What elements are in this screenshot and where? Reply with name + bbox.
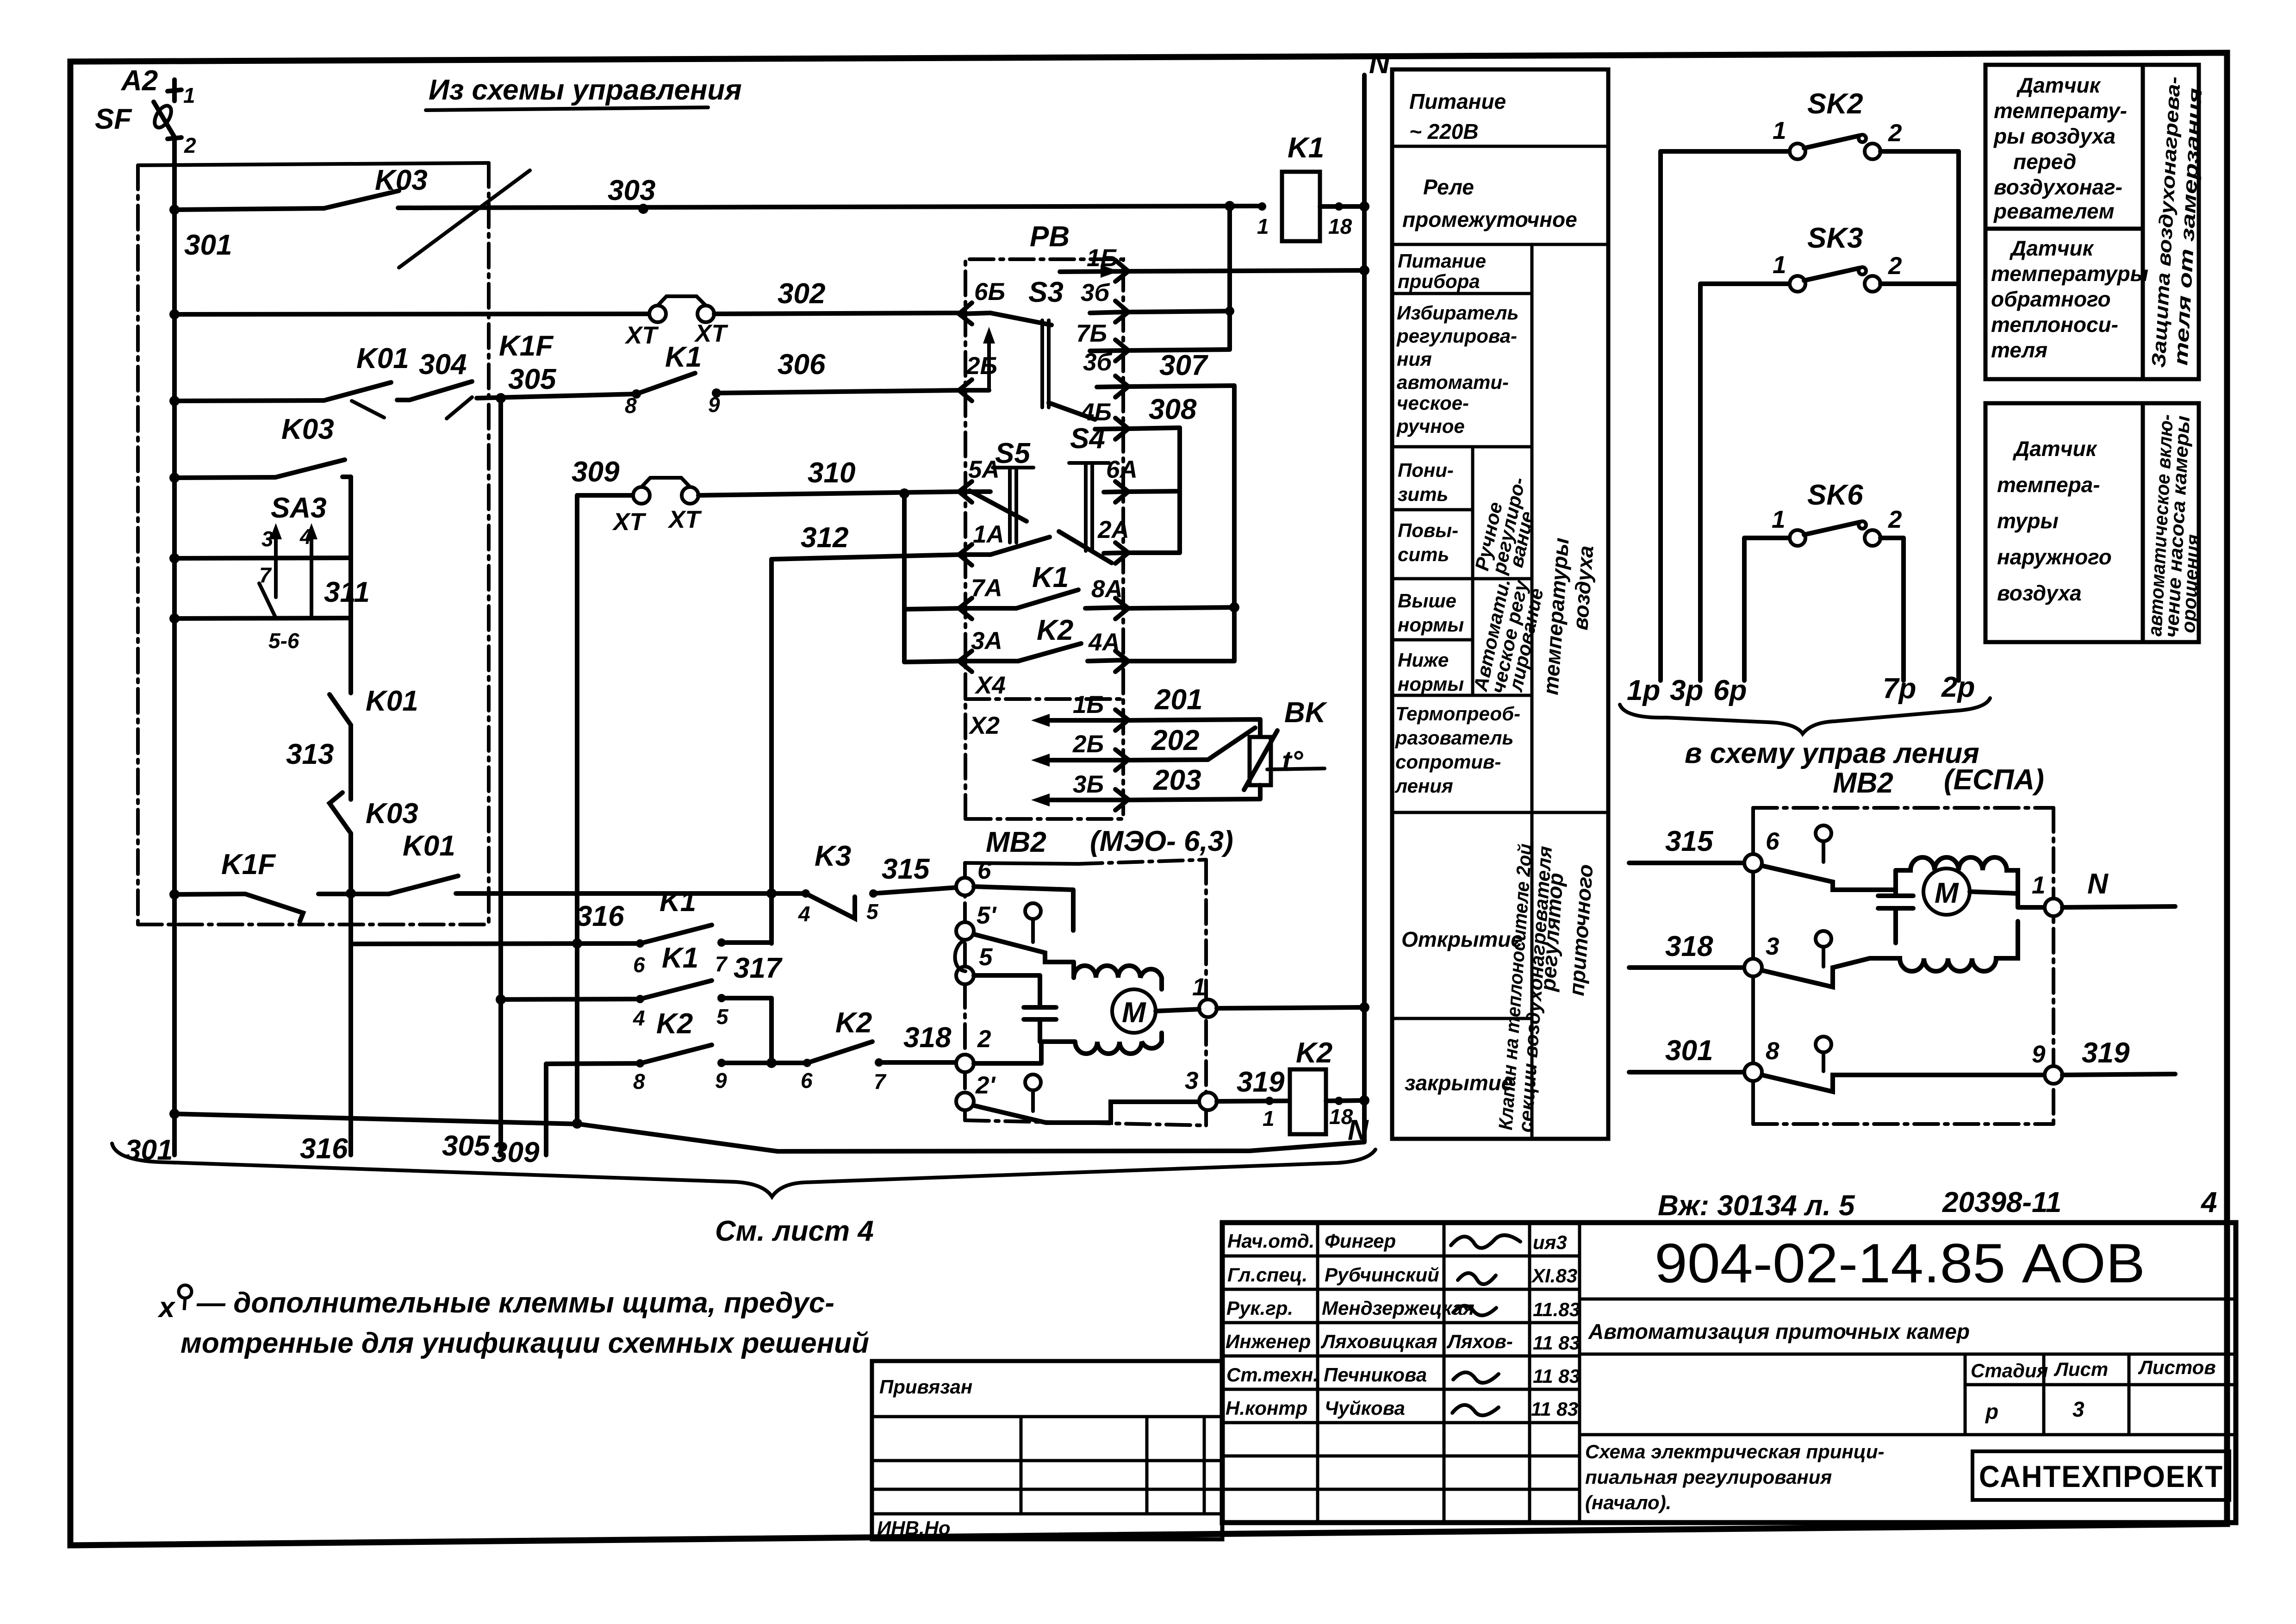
input chevron 7A (959, 598, 990, 619)
stage sheet table (1965, 1354, 2236, 1435)
svg-text:пиальная регулирования: пиальная регулирования (1585, 1466, 1832, 1488)
svg-text:сить: сить (1398, 543, 1449, 565)
svg-text:нормы: нормы (1398, 673, 1464, 695)
rail K2 / K2 / 318 (546, 1042, 957, 1155)
wire 301 into ESPA (1629, 976, 1762, 1081)
svg-text:4A: 4A (1088, 629, 1120, 656)
wire 202 (1129, 728, 1255, 760)
svg-text:Рубчинский: Рубчинский (1325, 1264, 1439, 1286)
switch S3 (990, 313, 1095, 419)
terminal 5 (955, 940, 1040, 984)
input chevron 2B (959, 380, 989, 401)
svg-text:промежуточное: промежуточное (1402, 207, 1577, 231)
svg-text:305: 305 (508, 363, 557, 395)
svg-text:воздуха: воздуха (1997, 581, 2082, 605)
svg-text:3: 3 (1766, 933, 1779, 960)
svg-text:303: 303 (608, 175, 655, 206)
arrow out 3B low (1031, 793, 1125, 806)
svg-text:K1: K1 (660, 886, 696, 918)
svg-text:S5: S5 (995, 437, 1031, 469)
wire: main phase bus A2 (168, 80, 181, 1155)
svg-text:N: N (2087, 868, 2109, 900)
svg-text:2: 2 (184, 133, 196, 157)
svg-text:9: 9 (708, 393, 720, 417)
output chevron 4A (1115, 651, 1128, 672)
sensor box B return heat carrier temperature (1985, 229, 2148, 379)
svg-text:7Б: 7Б (1076, 320, 1107, 347)
svg-text:1: 1 (1192, 974, 1206, 1001)
output chevron 6A (1104, 481, 1128, 502)
svg-text:MB2: MB2 (986, 826, 1046, 858)
svg-text:Мендзержецкая: Мендзержецкая (1322, 1297, 1475, 1319)
input chevron 1A (959, 544, 990, 565)
contact K03 in vertical wire (330, 793, 351, 833)
svg-text:904-02-14.85 АОВ: 904-02-14.85 АОВ (1655, 1232, 2145, 1294)
svg-text:Пони-: Пони- (1398, 459, 1454, 481)
svg-text:автомати-: автомати- (1397, 371, 1509, 393)
svg-text:319: 319 (1237, 1066, 1285, 1098)
svg-text:Выше: Выше (1398, 590, 1456, 612)
ESPA capacitor (1863, 870, 1913, 943)
svg-text:K1: K1 (1032, 562, 1069, 593)
rotated column freeze protection (2143, 65, 2206, 379)
svg-text:Реле: Реле (1423, 175, 1474, 199)
output chevron 2A (1104, 543, 1128, 563)
svg-text:3: 3 (261, 527, 274, 551)
contact K01 in vertical wire (330, 694, 351, 725)
wire to K03 lower contact (169, 460, 351, 483)
svg-text:K3: K3 (815, 840, 851, 872)
signature row 5 (1226, 1364, 1580, 1387)
svg-text:Лист: Лист (2053, 1358, 2108, 1380)
svg-text:(ЕСПА): (ЕСПА) (1944, 764, 2044, 796)
svg-text:5-6: 5-6 (268, 629, 299, 653)
sensor box A air temperature before heater (1985, 65, 2143, 229)
wire 8A (1129, 607, 1234, 608)
signature row 3 (1226, 1297, 1580, 1320)
svg-text:XT: XT (624, 322, 659, 349)
SK2 switch (1661, 135, 1959, 159)
svg-text:Ст.техн.: Ст.техн. (1226, 1364, 1319, 1386)
terminal 6 (956, 878, 1073, 931)
wire 307 (1129, 386, 1239, 661)
output chevron 3B2 (1097, 376, 1128, 397)
svg-text:ХІ.83: ХІ.83 (1531, 1265, 1577, 1287)
vertical from 303 to 7B (1227, 206, 1232, 350)
rail 316 / K1 (351, 925, 772, 948)
svg-text:туры: туры (1997, 509, 2059, 533)
svg-text:305: 305 (442, 1130, 491, 1162)
svg-text:сопротив-: сопротив- (1395, 751, 1501, 773)
svg-text:ния: ния (1397, 348, 1432, 370)
svg-text:1р: 1р (1627, 675, 1660, 706)
input chevron 3A (959, 651, 990, 672)
svg-text:7: 7 (259, 563, 272, 587)
svg-text:6Б: 6Б (974, 278, 1005, 306)
wire 7p (1901, 538, 1906, 681)
svg-text:Питание: Питание (1409, 89, 1506, 113)
svg-text:температуры: температуры (1991, 262, 2148, 286)
svg-text:— дополнительные клеммы щита,: — дополнительные клеммы щита, предус- (196, 1287, 834, 1319)
svg-text:201: 201 (1154, 684, 1202, 716)
svg-text:XT: XT (612, 508, 647, 536)
svg-text:2Б: 2Б (1072, 731, 1104, 758)
svg-text:ия3: ия3 (1533, 1231, 1567, 1253)
svg-text:7A: 7A (971, 575, 1002, 602)
wire 301 (174, 208, 324, 210)
relay coil K1 (1258, 172, 1369, 241)
svg-text:ческое-: ческое- (1397, 392, 1469, 414)
wire 7B to junction (1129, 350, 1230, 350)
wire: N neutral bus (1362, 75, 1367, 1142)
svg-text:319: 319 (2082, 1037, 2130, 1069)
svg-text:302: 302 (778, 278, 825, 310)
table text: lower (1398, 459, 1454, 505)
table text: regulation selector (1396, 302, 1518, 437)
svg-text:K1F: K1F (221, 849, 276, 881)
wire 309 long vertical (572, 495, 582, 1124)
svg-text:K1: K1 (1288, 132, 1324, 164)
title block outer (1222, 1223, 2236, 1523)
svg-text:SA3: SA3 (271, 492, 327, 524)
svg-text:перед: перед (2013, 150, 2076, 174)
svg-text:SK2: SK2 (1807, 88, 1863, 120)
signature row 4 (1226, 1330, 1580, 1354)
SK6 switch (1744, 521, 1904, 546)
svg-text:307: 307 (1159, 350, 1208, 381)
svg-text:7р: 7р (1883, 673, 1916, 705)
rotated column automatic pump start (2143, 403, 2204, 642)
sensor box C outside air temperature (1985, 403, 2143, 642)
svg-text:315: 315 (882, 853, 930, 885)
svg-text:воздухонаг-: воздухонаг- (1994, 175, 2122, 199)
vertical x1667 wire (766, 559, 777, 943)
svg-text:1: 1 (1257, 214, 1269, 238)
svg-text:ручное: ручное (1396, 415, 1465, 437)
svg-text:См. лист 4: См. лист 4 (715, 1215, 874, 1247)
svg-text:4: 4 (798, 902, 810, 926)
svg-text:Ляховицкая: Ляховицкая (1320, 1330, 1437, 1352)
svg-text:5': 5' (977, 902, 997, 929)
svg-text:Печникова: Печникова (1324, 1364, 1427, 1386)
selector SA3 rail lower (169, 613, 351, 624)
input chevron 5A (959, 481, 990, 502)
svg-text:316: 316 (576, 900, 624, 932)
svg-text:SK6: SK6 (1807, 479, 1863, 511)
svg-text:308: 308 (1149, 394, 1197, 425)
svg-text:Нач.отд.: Нач.отд. (1227, 1230, 1314, 1252)
svg-text:Стадия: Стадия (1971, 1360, 2048, 1381)
svg-text:6: 6 (977, 857, 991, 884)
svg-text:K1F: K1F (499, 330, 554, 362)
svg-text:Питание: Питание (1398, 250, 1486, 272)
contact K2 inside PB (990, 643, 1122, 661)
svg-text:K2: K2 (835, 1007, 872, 1039)
svg-text:Гл.спец.: Гл.спец. (1227, 1264, 1307, 1286)
svg-text:5: 5 (716, 1005, 729, 1029)
svg-text:SK3: SK3 (1807, 222, 1863, 254)
svg-text:5: 5 (979, 943, 993, 971)
svg-text:309: 309 (492, 1137, 540, 1168)
svg-text:1Б: 1Б (1087, 244, 1118, 272)
output chevron 203 (1115, 789, 1128, 810)
limit switch 5' (956, 903, 1074, 962)
svg-text:301: 301 (1665, 1035, 1713, 1067)
svg-text:3Б: 3Б (1073, 771, 1104, 798)
arrow out 1B low (1031, 714, 1125, 727)
svg-text:203: 203 (1153, 764, 1201, 796)
terminal 1 wire (1156, 999, 1369, 1017)
relay coil K2 (1290, 1069, 1369, 1134)
limit switch 2' (956, 1074, 1199, 1123)
wire 303 (169, 201, 1262, 215)
svg-text:317: 317 (734, 952, 783, 984)
svg-text:ИНВ.Но: ИНВ.Но (877, 1517, 951, 1539)
rail K1F / K01 / K3 / 315 (169, 876, 957, 921)
actuator MB2 box (965, 860, 1206, 1125)
switch S4 (1059, 463, 1112, 563)
signature row 6 (1226, 1397, 1578, 1420)
svg-text:Датчик: Датчик (2016, 73, 2102, 97)
svg-text:1: 1 (1773, 117, 1786, 144)
svg-text:х: х (157, 1292, 176, 1324)
svg-text:K2: K2 (1296, 1037, 1332, 1069)
svg-text:6: 6 (633, 953, 645, 977)
table text: device power (1398, 250, 1486, 292)
svg-text:Вж: 30134 л. 5: Вж: 30134 л. 5 (1658, 1190, 1855, 1222)
vertical wire x758 (346, 477, 356, 1155)
svg-text:A2: A2 (120, 65, 158, 97)
svg-text:X4: X4 (974, 672, 1006, 699)
stub to 3A (904, 661, 961, 662)
svg-text:K03: K03 (281, 413, 334, 445)
wire 318 into ESPA (1629, 872, 1762, 976)
SK3 switch (1700, 267, 1959, 292)
svg-text:K01: K01 (366, 685, 418, 717)
wire 304/305 rail (169, 381, 636, 418)
output chevron 8A (1115, 598, 1128, 619)
svg-text:MB2: MB2 (1833, 767, 1893, 799)
svg-text:11 83: 11 83 (1531, 1398, 1578, 1420)
svg-text:САНТЕХПРОЕКТ: САНТЕХПРОЕКТ (1979, 1459, 2223, 1493)
wire 319 (1217, 1097, 1290, 1105)
organization cell SANTEHPROEKT (1972, 1451, 2229, 1500)
wire 309/310 rail (577, 478, 961, 504)
svg-text:6: 6 (801, 1068, 813, 1093)
wire 1B to N (1129, 265, 1369, 275)
svg-text:Термопреоб-: Термопреоб- (1395, 703, 1520, 725)
svg-text:прибора: прибора (1398, 270, 1480, 292)
signature row 2 (1227, 1264, 1577, 1287)
svg-text:Датчик: Датчик (2009, 236, 2095, 260)
svg-text:ления: ления (1394, 775, 1453, 797)
svg-text:2Б: 2Б (966, 352, 997, 380)
svg-text:3A: 3A (971, 627, 1002, 655)
input chevron 6B (959, 303, 990, 324)
svg-text:Чуйкова: Чуйкова (1325, 1397, 1405, 1419)
svg-text:N: N (1348, 1114, 1369, 1146)
ESPA motor M (1923, 868, 1970, 915)
svg-text:6р: 6р (1713, 675, 1747, 706)
svg-text:315: 315 (1665, 825, 1714, 857)
svg-text:11.83: 11.83 (1533, 1299, 1580, 1320)
contact K1 on wire 306 (632, 373, 961, 399)
wire 6p (1742, 538, 1747, 681)
svg-text:BK: BK (1284, 697, 1328, 729)
output chevron 7B (1090, 340, 1128, 361)
svg-text:2: 2 (1888, 252, 1902, 280)
wire 312 (772, 555, 961, 559)
brace to control circuit (1620, 698, 1990, 734)
note bottom left line 1 (157, 1285, 834, 1324)
svg-text:304: 304 (419, 349, 467, 381)
manual arrow at 2B (983, 327, 995, 390)
title block signature grid (1222, 1223, 1580, 1523)
svg-text:11 83: 11 83 (1533, 1332, 1580, 1354)
svg-text:Инженер: Инженер (1226, 1330, 1311, 1352)
capacitor (1024, 975, 1056, 1042)
svg-text:202: 202 (1151, 725, 1199, 756)
svg-text:1A: 1A (973, 521, 1004, 548)
svg-text:теля: теля (1991, 338, 2047, 362)
svg-text:9: 9 (715, 1068, 727, 1093)
svg-text:6A: 6A (1106, 456, 1138, 483)
svg-text:8A: 8A (1091, 575, 1123, 603)
arrow out 2B low (1031, 754, 1125, 767)
svg-text:306: 306 (778, 349, 826, 381)
thermistor BK (1244, 719, 1325, 799)
svg-text:(МЭО- 6,3): (МЭО- 6,3) (1090, 825, 1233, 857)
svg-text:M: M (1935, 877, 1959, 909)
wire 201 (1129, 719, 1260, 720)
svg-text:3: 3 (1185, 1067, 1198, 1094)
svg-text:Схема электрическая принци-: Схема электрическая принци- (1585, 1441, 1885, 1462)
svg-text:9: 9 (2032, 1041, 2046, 1068)
svg-text:318: 318 (1665, 931, 1713, 962)
svg-text:7: 7 (715, 952, 728, 976)
svg-text:5: 5 (866, 899, 879, 924)
svg-text:8: 8 (633, 1069, 645, 1093)
annotation: from control circuit (399, 74, 742, 268)
svg-text:313: 313 (286, 738, 334, 770)
svg-text:2р: 2р (1941, 671, 1975, 703)
svg-text:3р: 3р (1670, 675, 1703, 706)
svg-text:K03: K03 (375, 164, 428, 196)
svg-text:р: р (1985, 1399, 1998, 1424)
svg-text:310: 310 (808, 457, 855, 489)
wire 302 (169, 309, 650, 319)
svg-text:X2: X2 (968, 712, 1000, 739)
wire 3p (1698, 284, 1703, 681)
selector SA3 rail upper (169, 553, 351, 563)
terminal 3 (1199, 1093, 1217, 1110)
output chevron 1B (1060, 260, 1128, 281)
svg-text:318: 318 (903, 1022, 952, 1054)
svg-text:наружного: наружного (1997, 545, 2112, 569)
svg-text:Открытие: Открытие (1401, 927, 1523, 951)
rail K1 / 317 (501, 981, 772, 1003)
output chevron 202 (1115, 750, 1128, 770)
svg-text:1: 1 (2032, 872, 2045, 899)
svg-text:K1: K1 (665, 341, 702, 373)
svg-text:1: 1 (1773, 251, 1786, 279)
ESPA switch 3 (1762, 931, 1870, 987)
svg-text:4: 4 (633, 1006, 645, 1030)
wire 308 loop (1129, 428, 1180, 553)
ESPA upper winding (1896, 857, 2018, 893)
switch S5 (970, 468, 1033, 543)
wire 1p (1658, 151, 1663, 681)
bottom rail (169, 1109, 1364, 1151)
table text: power 220V (1409, 89, 1506, 144)
terminal 9 (2045, 1066, 2175, 1084)
svg-text:Повы-: Повы- (1398, 519, 1458, 541)
upper winding (1074, 962, 1162, 989)
svg-text:в схему управ ления: в схему управ ления (1685, 737, 1979, 769)
regulator PB box (965, 259, 1123, 819)
wire 305 long vertical to sheet 4 (496, 393, 506, 1155)
svg-text:Привязан: Привязан (879, 1376, 972, 1398)
svg-text:S3: S3 (1028, 276, 1064, 308)
svg-text:311: 311 (324, 576, 370, 608)
panel boundary dash-dot bottom (138, 923, 489, 926)
svg-text:1: 1 (1772, 506, 1785, 533)
svg-text:зить: зить (1398, 483, 1448, 505)
drawing title cell (1580, 1435, 1965, 1513)
linked table (privyazan) (872, 1361, 1222, 1539)
motor M (1112, 989, 1156, 1033)
svg-text:теплоноси-: теплоноси- (1991, 312, 2118, 337)
svg-text:3б: 3б (1081, 279, 1110, 306)
table text: raise (1398, 519, 1458, 565)
rotated text: manual regulation (1471, 475, 1538, 576)
svg-text:(начало).: (начало). (1585, 1492, 1671, 1513)
svg-text:4: 4 (2200, 1187, 2217, 1218)
svg-text:2: 2 (1888, 119, 1902, 147)
svg-text:обратного: обратного (1991, 287, 2111, 311)
svg-text:K01: K01 (356, 343, 409, 375)
svg-text:Фингер: Фингер (1325, 1230, 1396, 1252)
svg-text:Датчик: Датчик (2012, 437, 2098, 461)
output chevron 201 (1115, 710, 1128, 731)
svg-text:N: N (1369, 48, 1390, 80)
svg-text:2A: 2A (1097, 516, 1129, 543)
svg-text:PB: PB (1030, 221, 1070, 253)
table text: thermal transducer (1394, 703, 1520, 797)
svg-text:301: 301 (184, 229, 232, 261)
svg-text:K2: K2 (656, 1008, 693, 1040)
svg-text:Ляхов-: Ляхов- (1446, 1330, 1513, 1352)
svg-text:3: 3 (2072, 1397, 2084, 1421)
svg-text:разователь: разователь (1395, 727, 1513, 749)
rotated text: temperature regulator (1536, 537, 1598, 997)
stub to 7A (904, 608, 961, 609)
svg-text:7: 7 (874, 1069, 887, 1093)
svg-text:Избиратель: Избиратель (1397, 302, 1518, 324)
lower winding (1040, 1033, 1162, 1054)
svg-text:1: 1 (1263, 1106, 1275, 1131)
table text: intermediate relay (1402, 175, 1577, 231)
svg-text:Автоматизация приточных камер: Автоматизация приточных камер (1588, 1319, 1970, 1343)
svg-text:темпера-: темпера- (1997, 473, 2100, 497)
output chevron 3B (1090, 301, 1128, 322)
svg-text:K01: K01 (403, 830, 455, 862)
svg-text:18: 18 (1328, 214, 1352, 238)
svg-text:8: 8 (1766, 1037, 1780, 1065)
vertical from 310 to 7A/3A (902, 493, 907, 662)
rotated text: automatic regulation (1469, 577, 1548, 695)
svg-text:t°: t° (1282, 745, 1304, 777)
